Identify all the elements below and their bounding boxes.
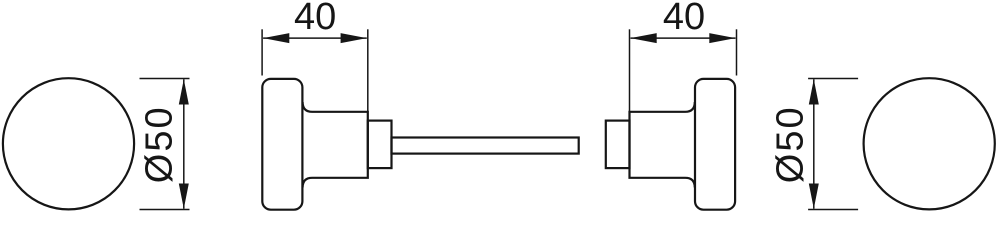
svg-text:Ø50: Ø50 [138, 105, 180, 183]
dimension 40 right: left arrowhead [631, 33, 657, 43]
dimension Ø50 right: top extension line [808, 78, 858, 80]
left knob side view: spindle [392, 138, 579, 154]
left knob front view circle [3, 78, 134, 209]
svg-text:40: 40 [294, 0, 336, 38]
dimension 40 right: right arrowhead [709, 33, 735, 43]
dimension Ø50 left: dimension line [183, 79, 185, 208]
dimension 40 right: dimension line [631, 37, 736, 39]
dimension 40 left: right arrowhead [341, 33, 367, 43]
left knob side view: hub [368, 121, 392, 169]
right knob side view: neck and collar outline [630, 102, 695, 188]
right knob side view: head (rounded rect) [695, 79, 735, 210]
dimension Ø50 right: dimension line [813, 79, 815, 208]
dimension Ø50 left: top extension line [140, 78, 190, 80]
dimension 40 right: left extension line [629, 29, 631, 112]
dimension Ø50 left: bottom arrowhead [179, 184, 189, 209]
right knob front view circle [864, 78, 995, 209]
dimension 40 left: left extension line [261, 29, 263, 75]
dimension Ø50 left: bottom extension line [140, 209, 190, 211]
svg-text:40: 40 [663, 0, 705, 38]
left knob side view: head (rounded rect) [262, 79, 302, 210]
dimension 40 right: right extension line [736, 29, 738, 75]
left knob side view: neck and collar outline [303, 102, 368, 188]
dimension 40 left: dimension line [263, 37, 367, 39]
right knob side view: hub [606, 121, 630, 169]
dimension 40 left: right extension line [367, 29, 369, 112]
dimension 40 left: left arrowhead [263, 33, 289, 43]
dimension Ø50 left: top arrowhead [179, 79, 189, 104]
svg-text:Ø50: Ø50 [769, 105, 811, 183]
dimension Ø50 right: top arrowhead [809, 79, 819, 104]
dimension Ø50 right: bottom arrowhead [809, 184, 819, 209]
dimension Ø50 right: bottom extension line [808, 209, 858, 211]
